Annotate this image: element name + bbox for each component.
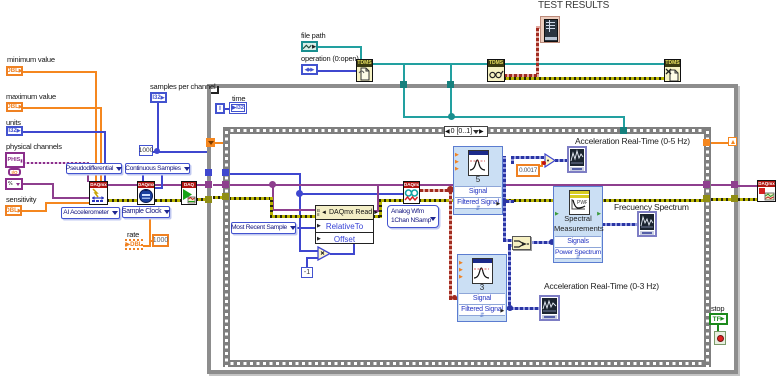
wire sensitivity orange	[20, 210, 47, 212]
DAQmx Read VI icon	[403, 181, 420, 204]
wire error olive inside sequence	[229, 197, 273, 200]
tunnel olive on sequence right	[703, 195, 710, 202]
wire iteration terminal blue	[224, 108, 230, 110]
wire scaling purple	[21, 183, 54, 185]
wire 0.0017 orange	[537, 165, 543, 167]
stacked sequence right border	[704, 127, 711, 367]
wire continuous samples ring to timing VI	[142, 174, 144, 182]
tunnel teal on sequence top	[620, 127, 627, 134]
terminal maximum value DBL	[6, 102, 23, 112]
shift register right orange	[728, 137, 737, 146]
tunnel teal on loop top A	[400, 81, 407, 88]
wire physical channels purple dotted	[23, 162, 87, 164]
stacked sequence top border	[223, 127, 711, 134]
node merge out junction	[549, 239, 555, 245]
indicator table TEST RESULTS	[540, 16, 560, 43]
constant 1000 blue	[139, 145, 153, 156]
wire task purple inside sequence	[229, 184, 704, 186]
terminal sensitivity DBL	[5, 205, 22, 216]
label operation (0:open)	[301, 55, 359, 63]
DAQmx Read property node	[315, 205, 374, 244]
tunnel olive on loop left	[205, 196, 212, 203]
node blue junction spc	[154, 148, 160, 154]
svg-text:PWR: PWR	[577, 200, 587, 206]
terminal units I32	[6, 126, 23, 136]
TDMS Open VI icon	[356, 59, 373, 82]
wire spectral to spectrum chart navy	[602, 223, 638, 226]
DAQmx Clear Task VI icon	[757, 180, 776, 202]
wire task purple chain between DAQmx VIs	[107, 184, 138, 186]
tunnel blue on sequence left	[222, 169, 229, 176]
terminal samples per channel I32	[150, 92, 167, 103]
tunnel purple on loop right	[731, 181, 738, 188]
indicator time I32	[229, 102, 247, 114]
label maximum value	[6, 93, 56, 101]
tunnel purple on sequence right	[703, 181, 710, 188]
node blue junction samples	[296, 190, 303, 197]
node dynamic junction2	[507, 305, 513, 311]
wire -1 to multiply blue	[306, 259, 308, 269]
node waveform junction	[447, 186, 454, 193]
wire max value orange	[20, 107, 102, 109]
wire waveform brown from read VI	[420, 189, 454, 192]
wire test results red dashed	[536, 26, 543, 29]
label Acceleration Real-Time (0-5 Hz)	[575, 136, 690, 146]
DAQmx Create Virtual Channel VI icon	[89, 181, 108, 205]
wire min value orange	[20, 71, 97, 73]
scaling ring constant	[5, 178, 23, 190]
TDMS Write VI icon	[487, 59, 505, 82]
DAQmx Timing VI icon	[137, 181, 155, 205]
shift register left orange	[206, 138, 215, 147]
terminal minimum value DBL	[6, 66, 23, 76]
DAQmx Start Task VI icon	[181, 181, 197, 205]
wire error olive to clear VI	[711, 198, 733, 201]
label Frecuency Spectrum	[614, 202, 689, 212]
ring Analog Wfm 1Chan NSamp	[387, 205, 439, 228]
merge signals node	[512, 236, 531, 250]
ring AI Accelerometer	[61, 207, 120, 219]
wire samples per channel blue	[157, 103, 159, 153]
label TEST RESULTS	[538, 1, 609, 11]
loop condition terminal stop button	[714, 331, 726, 345]
wire dynamic filter1 out navy	[501, 200, 514, 203]
constant -1	[301, 267, 313, 278]
node teal junction	[448, 113, 455, 120]
ring Continuous Samples	[125, 163, 190, 174]
ring Sample Clock	[122, 206, 170, 218]
express VI Spectral Measurements	[553, 186, 603, 263]
tunnel blue on loop left	[205, 169, 212, 176]
terminal file path	[301, 41, 318, 52]
wire task purple to clear VI	[711, 184, 733, 186]
label sensitivity	[6, 196, 36, 204]
label physical channels	[6, 143, 62, 151]
chart Acceleration Real-Time 0-3	[539, 295, 560, 321]
tunnel purple on loop left	[205, 181, 212, 188]
multiply node	[317, 246, 332, 261]
tunnel teal on loop top B	[447, 81, 454, 88]
chart Acceleration Real-Time 0-5	[567, 146, 587, 173]
wire tdms error olive top	[504, 77, 665, 80]
terminal operation enum	[301, 64, 318, 75]
constant 1000 orange	[152, 234, 169, 247]
wire file path teal	[318, 46, 362, 48]
terminal stop TF	[709, 313, 728, 325]
wire shift register orange right	[710, 142, 730, 144]
express VI Filter 3	[457, 254, 507, 322]
wire tdms refnum teal inside loop	[403, 88, 405, 118]
stacked sequence bottom border	[223, 360, 711, 367]
wire merge to spectral navy	[529, 241, 555, 244]
terminal physical channels sub	[8, 168, 21, 176]
ring Pseudodifferential	[66, 163, 122, 174]
express VI Filter 5	[453, 146, 503, 215]
terminal rate DBL	[125, 239, 143, 250]
terminal physical channels	[5, 152, 25, 168]
wire samples inside loop blue	[229, 173, 301, 175]
wire scale triangle to chart navy	[555, 159, 569, 162]
ring Most Recent Sample	[231, 222, 296, 234]
tunnel purple on sequence left	[222, 181, 229, 188]
node dynamic junction1	[501, 198, 507, 204]
iteration terminal	[215, 103, 225, 114]
wire rate and 1000 orange	[142, 245, 151, 247]
label Acceleration Real-Time (0-3 Hz)	[544, 281, 659, 291]
label minimum value	[7, 56, 55, 64]
node coercion dot red	[542, 161, 546, 165]
wire most recent sample to relativeto blue	[296, 227, 316, 229]
wire tdms refnum teal top	[372, 63, 665, 65]
tunnel orange on sequence right	[703, 139, 710, 146]
wire dynamic filter2 out navy	[505, 307, 541, 310]
node purple junction task	[269, 181, 276, 188]
tunnel olive on loop right	[731, 195, 738, 202]
label units	[6, 119, 21, 127]
wire error olive chain between DAQmx VIs	[107, 199, 138, 202]
label samples per channel	[150, 83, 215, 91]
constant 0.0017	[516, 164, 540, 177]
TDMS Close VI icon	[664, 59, 681, 82]
sequence selector label 0 [0..1]	[444, 126, 488, 137]
while loop corner mark	[211, 86, 219, 94]
label stop	[711, 305, 724, 313]
wire units blue	[20, 131, 106, 133]
tunnel olive on sequence left	[222, 193, 229, 200]
label file path	[301, 32, 325, 40]
label rate	[127, 231, 139, 239]
scale multiply node	[544, 153, 557, 168]
stacked sequence left border	[223, 127, 230, 367]
wire shift register orange left	[215, 142, 229, 144]
label time	[232, 95, 245, 103]
wire multiply out to offset blue	[330, 253, 355, 255]
wire operation blue	[318, 70, 357, 72]
chart Frecuency Spectrum	[637, 211, 657, 237]
while loop	[207, 84, 738, 374]
wire stop boolean green	[717, 324, 719, 332]
